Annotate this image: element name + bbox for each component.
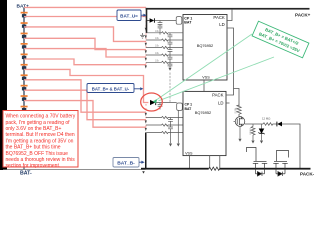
sense rows <box>146 32 183 68</box>
capacitor C2 <box>158 26 163 34</box>
wire cap col down <box>170 133 172 144</box>
wire thick vertical at rail start <box>146 8 148 33</box>
svg-text:DMN3: DMN3 <box>250 128 252 135</box>
capacitor CL2 <box>168 125 173 133</box>
green callout line 2 <box>159 57 275 101</box>
capacitor Cs4 <box>168 55 173 62</box>
node arrow row4 <box>145 50 147 53</box>
svg-text:section for improvement.: section for improvement. <box>6 163 61 169</box>
svg-text:I'm getting a reading of 35V o: I'm getting a reading of 35V on <box>6 138 74 144</box>
wire U1 LD to U2 PACK <box>226 28 234 95</box>
resistor R7 <box>251 124 255 140</box>
svg-text:When connecting a 70V battery: When connecting a 70V battery <box>6 114 76 120</box>
svg-text:LD: LD <box>219 22 225 27</box>
battery cell B10 <box>21 106 28 112</box>
wire battery bottom stub <box>23 167 25 170</box>
value labels <box>155 30 160 63</box>
node arrow rowL2 <box>145 113 147 116</box>
power rail PACK- (bottom thick) <box>141 168 209 170</box>
diode D6 <box>276 122 278 127</box>
capacitor Cs5 <box>168 62 173 67</box>
wire diode to bracket <box>155 20 177 22</box>
battery cell B5 <box>21 54 28 60</box>
capacitor Cs3 <box>168 48 173 56</box>
battery cell B4 <box>21 43 28 49</box>
battery cell B8 <box>21 85 28 91</box>
svg-text:BAT_U=: BAT_U= <box>120 14 138 19</box>
wire Q1 drain right <box>245 123 263 125</box>
svg-text:CP 1: CP 1 <box>185 102 193 106</box>
svg-text:only 3.6V on the BAT_B+: only 3.6V on the BAT_B+ <box>6 126 62 132</box>
wire row2 + resistor <box>146 39 183 41</box>
diode Q3 body <box>276 169 285 176</box>
ground arrow VC bottom <box>168 68 171 71</box>
svg-text:BQ76952: BQ76952 <box>197 43 213 48</box>
wire row1 + resistor <box>146 32 183 34</box>
svg-text:BQ76952: BQ76952 <box>195 110 211 115</box>
battery cell B7 <box>21 74 28 80</box>
battery cell B3 <box>21 33 28 39</box>
node arrow rowL3 <box>145 120 147 123</box>
capacitor C1 <box>158 21 163 26</box>
node arrow row5b <box>145 65 147 68</box>
svg-text:BAT_B= & BAT_U-: BAT_B= & BAT_U- <box>92 86 130 91</box>
left margin bar <box>0 0 7 170</box>
svg-text:BAT: BAT <box>185 107 193 111</box>
wire Q1 source down <box>239 126 241 138</box>
svg-text:terminal. But If remove D4 the: terminal. But If remove D4 then <box>6 132 75 138</box>
svg-text:VSS: VSS <box>202 75 210 79</box>
op-amp U1 BQ76952 (top AFE) <box>183 15 227 81</box>
ground arrow Q1 <box>238 139 241 142</box>
resistor R5 0.98k <box>237 105 241 117</box>
node BAT_B= & BAT_U- label box <box>87 84 134 93</box>
green note box <box>252 21 309 58</box>
wire BAT+ top <box>24 6 146 8</box>
transistor Q2 (DSG FET) <box>247 148 268 169</box>
power rail BAT+/PACK+ (top thick) <box>146 8 310 10</box>
svg-text:BAT+: BAT+ <box>17 3 30 9</box>
svg-text:BQ76952_B OFF This issue: BQ76952_B OFF This issue <box>6 151 69 157</box>
node BAT_B- label box <box>113 158 139 168</box>
wire D4 to bracket <box>156 102 177 104</box>
ground <box>140 33 145 38</box>
battery cell B9 <box>21 95 28 101</box>
wire dashed column upper <box>145 17 147 65</box>
wire tap2 <box>24 27 146 42</box>
diode D4 <box>150 100 155 105</box>
zener D5 <box>258 124 264 140</box>
power rail BAT_B- thick vertical <box>145 133 147 170</box>
svg-text:BAT: BAT <box>184 21 192 25</box>
svg-text:VSS: VSS <box>185 151 193 155</box>
transistor Q3 (CHG FET) <box>273 151 288 169</box>
svg-text:pack, I'm getting a reading of: pack, I'm getting a reading of <box>6 120 71 126</box>
wire tap1 <box>24 16 146 18</box>
svg-text:BAT_B-: BAT_B- <box>117 161 135 167</box>
wire bottom stub2 <box>209 156 211 169</box>
node arrow row1 <box>145 28 147 31</box>
pin bracket CP1/BAT <box>176 17 182 25</box>
node arrow row3 <box>145 43 147 46</box>
svg-text:BAT-: BAT- <box>20 171 32 177</box>
wire to PACK- drop <box>282 124 300 169</box>
node arrow row5 <box>145 58 147 61</box>
wire CP input <box>147 20 150 22</box>
svg-text:the BAT_B+ but this time: the BAT_B+ but this time <box>6 145 61 151</box>
wire U1 PACK to rail <box>227 10 232 21</box>
wire BAT- net (bottom gray) <box>3 168 146 170</box>
capacitor CL1 <box>168 118 173 126</box>
battery cell B2 <box>21 22 28 28</box>
wire branch to R5 <box>234 89 240 107</box>
wire tap8 <box>24 90 146 120</box>
red note box <box>3 111 78 168</box>
wire tap9 <box>24 101 146 128</box>
wire Q1 gate stub <box>234 121 236 123</box>
wire VC10 down <box>169 73 171 103</box>
ground arrow colA <box>169 144 172 147</box>
capacitor C3 <box>158 103 163 110</box>
svg-text:0.98k: 0.98k <box>234 107 237 114</box>
wire bottom stub3 <box>219 156 221 169</box>
wire row5 + resistor <box>146 61 183 63</box>
wire rowL2 + resistor <box>146 116 183 118</box>
wire dashed column lower <box>145 104 147 127</box>
diode Q2 body <box>256 169 265 176</box>
capacitor Cs2 <box>168 40 173 48</box>
ground arrow R7 <box>251 141 254 144</box>
resistor R8 shunt <box>209 167 220 170</box>
wire row3 + resistor <box>146 46 183 48</box>
wire tap3 <box>24 38 146 49</box>
wire U2 LD stub <box>226 102 230 104</box>
diode D1 <box>150 18 155 22</box>
node BAT_U= label box <box>117 10 141 21</box>
wire tap6 (BAT_B+) <box>24 69 148 102</box>
svg-text:LD: LD <box>218 100 224 105</box>
svg-text:PACK: PACK <box>212 92 224 97</box>
green callout line 1 <box>157 34 252 100</box>
op-amp U2 BQ76952_B (lower AFE) <box>183 91 226 155</box>
wire bottom stub1 <box>188 156 190 169</box>
red circle highlight <box>141 93 163 111</box>
green callout arrow <box>153 99 158 103</box>
svg-text:12 MΩ: 12 MΩ <box>262 117 270 121</box>
battery cell B6 <box>21 64 28 70</box>
wire tap7 <box>24 80 146 112</box>
ground arrow colB <box>177 144 180 147</box>
wire rowL4 + resistor <box>147 131 184 133</box>
resistor R6 12M <box>263 123 277 126</box>
wire bracket col down <box>177 110 179 143</box>
wire tap5 <box>24 59 146 65</box>
node arrow row2 <box>145 35 147 38</box>
transistor Q1 (P-FET) <box>235 117 245 127</box>
wire rowL3 + resistor <box>146 124 183 126</box>
svg-text:PACK-: PACK- <box>300 172 315 177</box>
node junction mark <box>142 171 145 173</box>
pin bracket CP1/BAT (lower) <box>177 103 183 110</box>
battery cell B1 <box>21 12 28 18</box>
ground arrow D5 <box>260 141 263 144</box>
wire tap4 <box>24 49 146 57</box>
wire row4 + resistor <box>146 54 183 56</box>
sense rows lower <box>146 110 183 143</box>
capacitor Cs1 <box>168 33 173 40</box>
svg-text:needs a thorough review in thi: needs a thorough review in this <box>6 157 76 163</box>
svg-text:PACK+: PACK+ <box>295 13 311 18</box>
battery stack line <box>23 7 25 110</box>
svg-text:CP 1: CP 1 <box>184 16 192 20</box>
wire VSS stub down <box>203 80 205 91</box>
node arrow rowL4 <box>145 128 147 131</box>
svg-text:PACK: PACK <box>213 15 225 20</box>
